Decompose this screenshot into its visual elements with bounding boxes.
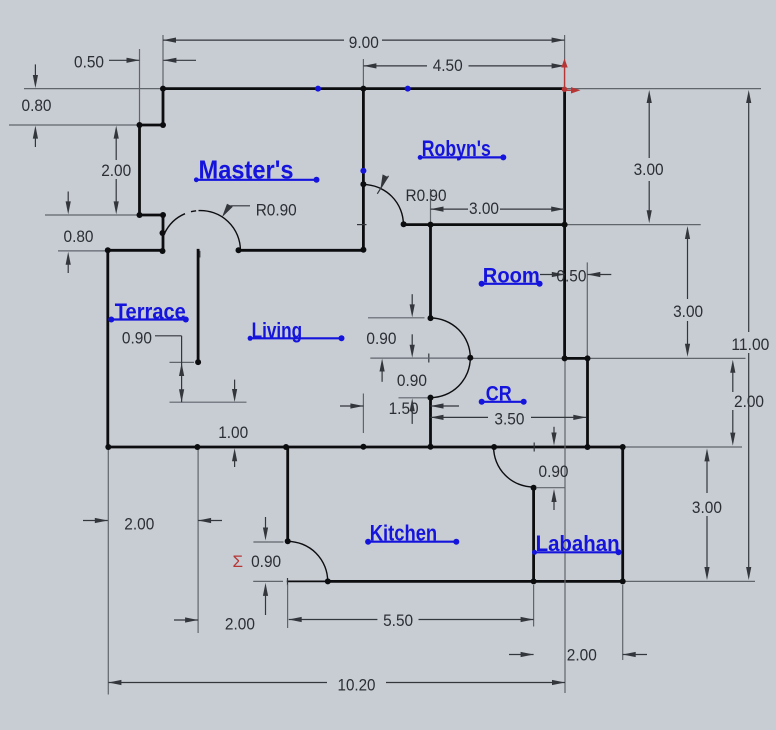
ext y=250.9 left	[58, 250, 108, 252]
wall master step v3	[162, 215, 165, 251]
svg-text:3.00: 3.00	[634, 160, 664, 179]
dim 11.00	[748, 96, 750, 332]
label Labahan	[532, 531, 622, 556]
dim 2.00 bottom-left	[174, 619, 198, 621]
ext y=447 right	[623, 446, 742, 448]
ext y=317.8 living	[368, 317, 425, 319]
wall terrace divider	[197, 250, 200, 362]
ext y=224.6 right	[565, 224, 701, 226]
label Kitchen	[365, 521, 459, 546]
dim 1.50	[340, 405, 363, 407]
dim 0.80 lower-left	[67, 192, 69, 203]
dim 0.50 room	[540, 274, 565, 276]
dim 2.00 right	[732, 365, 734, 392]
wall kitchen bottom	[328, 580, 623, 583]
svg-text:0.90: 0.90	[539, 462, 569, 481]
wall cr upper	[429, 225, 432, 319]
ext x=533.6 down	[533, 585, 535, 627]
label Robyn's	[418, 136, 507, 161]
dim 3.00 robyn	[431, 208, 469, 210]
dim 5.50	[289, 617, 302, 622]
origin marker	[564, 66, 566, 89]
wall master step v2	[138, 125, 141, 215]
wall south main	[108, 446, 623, 449]
wall labahan left	[532, 488, 535, 582]
wall master step v1	[162, 89, 165, 125]
dim 3.00 right-1	[648, 96, 650, 158]
svg-text:0.50: 0.50	[74, 53, 104, 72]
sketch blue points	[315, 86, 321, 92]
svg-text:0.90: 0.90	[366, 329, 396, 348]
ext y=358.4 right	[588, 357, 746, 359]
svg-text:3.50: 3.50	[494, 410, 524, 429]
wall jog at y=358	[565, 357, 588, 360]
label Master's	[194, 154, 320, 184]
door arc robyn (R0.90)	[363, 185, 403, 225]
ext y=88.6 left	[24, 88, 163, 90]
svg-text:5.50: 5.50	[383, 611, 413, 630]
wall kitchen left	[286, 447, 289, 541]
ext y=88.6 right	[565, 88, 761, 90]
svg-text:4.50: 4.50	[433, 56, 463, 75]
svg-text:0.80: 0.80	[22, 96, 52, 115]
label CR	[479, 383, 527, 406]
dim 0.90 living lower	[380, 359, 385, 372]
door arc master (R0.90)	[199, 211, 241, 251]
leader R0.90 master	[222, 204, 233, 217]
ext x=287.6 down	[287, 585, 289, 629]
ext x=163 up	[162, 35, 164, 89]
dim 0.80 top-left	[34, 64, 36, 76]
door arc cr (R0.90)	[431, 318, 471, 398]
wall terrace top	[108, 249, 163, 252]
dim 3.00 right-2	[687, 231, 689, 299]
dim 3.00 right-3	[706, 453, 708, 493]
svg-text:2.00: 2.00	[567, 646, 597, 665]
wall master step h2	[140, 214, 164, 217]
dim 1.00 terrace	[234, 380, 236, 390]
wall master step h1	[140, 124, 164, 127]
wall living top	[239, 249, 364, 252]
dim 0.50 top-left	[109, 59, 140, 61]
ext x=198.1 down	[197, 447, 199, 633]
dim 3.50 cr	[431, 416, 489, 418]
door arc kitchen (R0.90)	[288, 541, 328, 581]
ext x=430.5 above room wall	[430, 189, 432, 225]
dim 2.00 labahan bottom	[509, 654, 534, 656]
svg-text:0.90: 0.90	[122, 329, 152, 348]
svg-text:9.00: 9.00	[349, 33, 379, 52]
wall room top	[404, 223, 565, 226]
ext x=564.6 up	[564, 35, 566, 89]
svg-text:Σ: Σ	[232, 552, 243, 571]
svg-text:2.00: 2.00	[225, 614, 255, 633]
svg-text:3.00: 3.00	[692, 498, 722, 517]
svg-text:11.00: 11.00	[731, 335, 769, 354]
dim sigma 0.90 kitchen	[265, 517, 267, 528]
dim 2.00 mid-left	[83, 520, 108, 522]
ext x=363.4 up	[362, 59, 364, 89]
label Terrace	[108, 299, 189, 324]
wall top (9.00 span)	[163, 87, 565, 90]
ext y=125 left	[9, 124, 140, 126]
svg-text:1.00: 1.00	[218, 423, 248, 442]
ext x=363.4 below living	[362, 394, 364, 434]
svg-text:10.20: 10.20	[338, 675, 376, 694]
dim 9.00	[163, 39, 344, 41]
ext y=362.4 terrace	[170, 361, 195, 363]
svg-text:2.00: 2.00	[124, 514, 154, 533]
label Room	[479, 265, 543, 288]
ext y=581.4 kitchen	[253, 580, 283, 582]
wall right upper	[563, 89, 566, 359]
wall right lower	[586, 358, 589, 447]
ext y=397.8 living	[399, 397, 431, 399]
ext y=358.4 mid	[470, 357, 564, 359]
svg-text:2.00: 2.00	[101, 161, 131, 180]
label Living	[248, 318, 345, 343]
arc centre tick robyn	[357, 224, 367, 226]
svg-text:0.50: 0.50	[556, 267, 586, 286]
svg-text:0.90: 0.90	[397, 371, 427, 390]
arc centre tick cr	[428, 354, 430, 363]
ext y=541.7 kitchen	[253, 541, 283, 543]
arc centre tick labahan	[533, 443, 535, 452]
sketch endpoint dots	[160, 86, 166, 92]
svg-text:R0.90: R0.90	[256, 201, 297, 220]
dim 2.00 upper-left	[115, 138, 117, 160]
wall cr lower	[429, 398, 432, 447]
svg-text:3.00: 3.00	[673, 302, 703, 321]
dim 10.20	[108, 680, 121, 685]
leader R0.90 robyn	[377, 176, 388, 194]
svg-text:0.90: 0.90	[251, 552, 281, 571]
wall labahan right	[621, 447, 624, 581]
dim 4.50	[363, 65, 427, 67]
ext y=358.1 cr door centreline	[370, 357, 470, 359]
wall robyn divider	[362, 89, 365, 251]
door arc labahan (R0.90)	[494, 447, 534, 487]
ext y=487.7 labahan	[537, 487, 565, 489]
ext x=587.3 up	[586, 262, 588, 358]
svg-text:3.00: 3.00	[469, 199, 499, 218]
ext y=402.2 terrace	[170, 401, 247, 403]
dim 0.90 living upper	[411, 294, 413, 305]
arc centre tick kitchen	[287, 578, 289, 586]
ext x=622.7 down	[622, 585, 624, 660]
ext x=139.5 up	[139, 49, 141, 125]
ext y=215 left	[45, 214, 140, 216]
ext y=581.4 right	[623, 580, 755, 582]
dim 0.90 labahan	[553, 427, 555, 433]
svg-text:0.80: 0.80	[64, 227, 94, 246]
svg-text:R0.90: R0.90	[406, 186, 447, 205]
ext x=108.3 down	[107, 447, 109, 695]
arc centre tick master	[199, 251, 201, 258]
ext x=565 down long	[564, 358, 566, 693]
wall left outer	[106, 250, 109, 447]
